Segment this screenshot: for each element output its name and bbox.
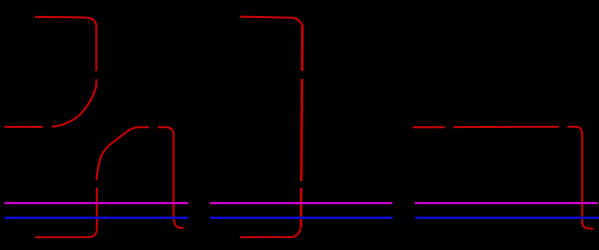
wire: mid plateau L3 left part [413,126,445,128]
wire: mid plateau L2 right part + corner + falling edge V3 + bottom foot [158,127,184,228]
threshold line blue (three segments with text gaps) [5,217,599,219]
wire: bottom plateau B1 + corner up + steep rise lower part [35,188,97,238]
threshold line magenta (three segments with text gaps) [5,202,599,204]
wire: exponential rise B upper bend + mid plateau L2 left part [97,127,149,180]
wire: tall vertical at x=301.5 (rise+fall overlapped) [301,25,303,228]
wire: pulse2 top plateau + right corner down [240,17,302,26]
wire: bottom plateau B2 + corner up into vertical [240,229,301,237]
wire: mid plateau L3 right part + corner + falling edge V6 + bottom foot [454,127,594,229]
wire: pulse1 top plateau + right corner + falling edge V2 + swoosh A to mid level [35,17,96,127]
wire: mid plateau L1 (left of gap) [5,126,43,128]
